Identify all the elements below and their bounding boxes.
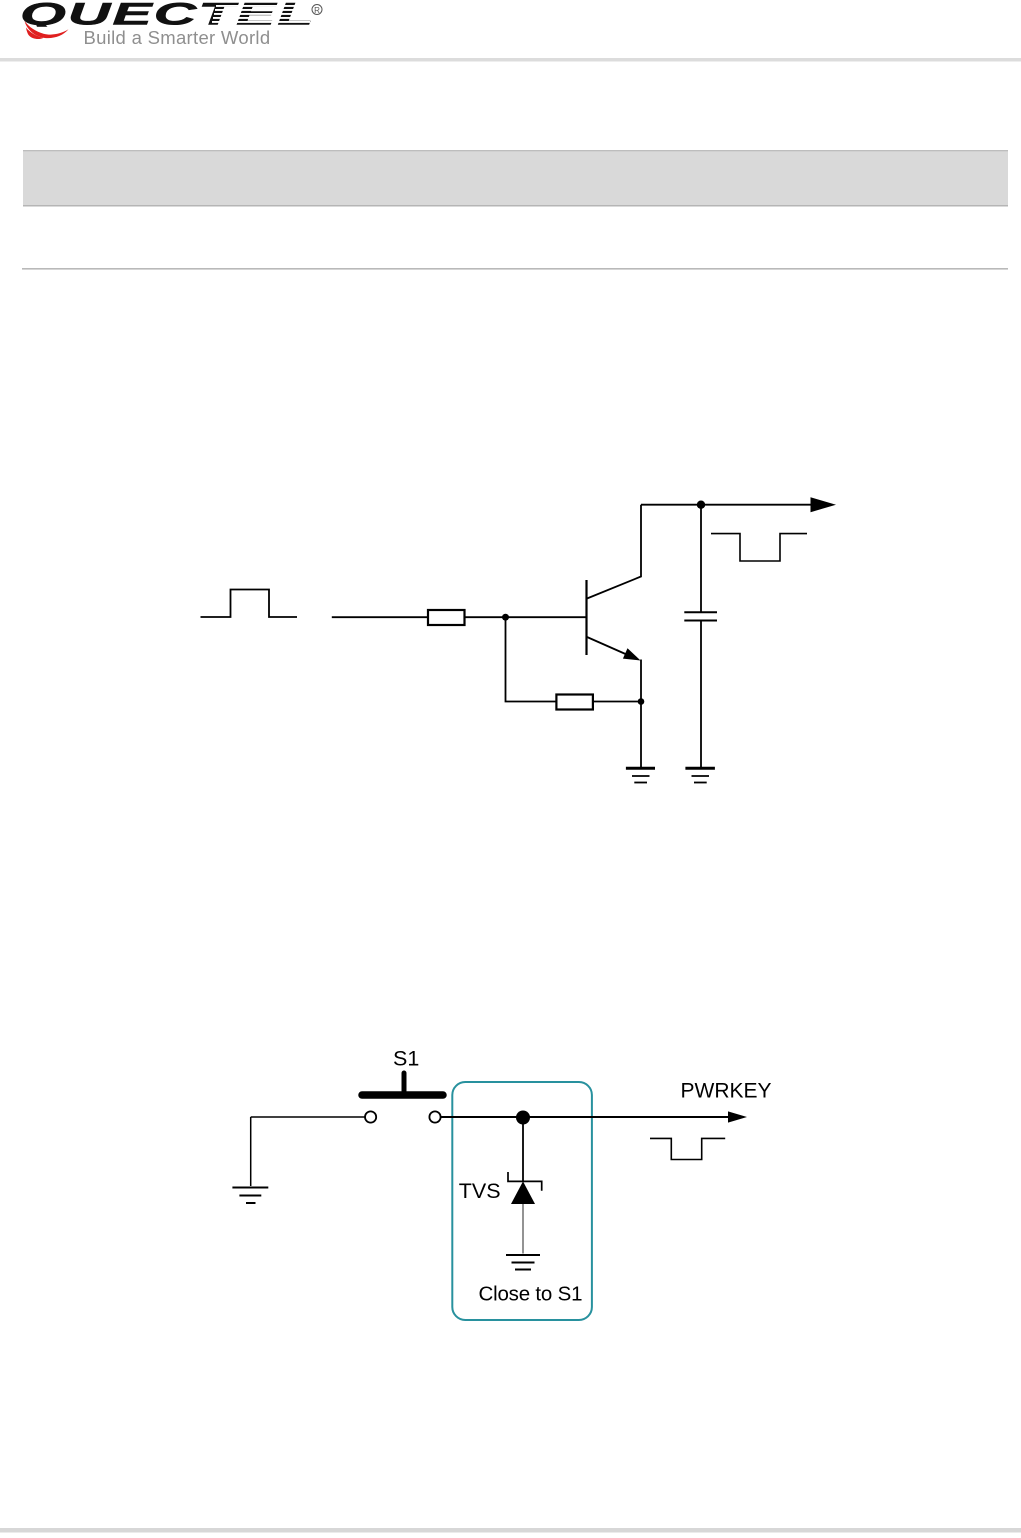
ground symbol (capacitor) [685,768,715,782]
TVS placement box (close to S1) [452,1082,592,1320]
svg-text:PWRKEY: PWRKEY [681,1080,772,1103]
ground symbol (emitter) [626,768,655,782]
footer divider line [0,1528,1021,1533]
wire: right contact to PWRKEY output [441,1116,729,1118]
wire: ground stub to left contact [251,1116,365,1118]
arrowhead: PWRKEY output of circuit 1 [811,497,837,512]
wire: rail node down to capacitor C1 [700,505,702,612]
sub-section divider line [22,268,1008,270]
logo registered trademark symbol [312,5,322,15]
TVS diode D1 (zener cathode bar with hooks) [508,1172,542,1191]
logo red swoosh [18,27,75,42]
output pulse waveform (circuit 1) [711,534,807,561]
node: emitter junction dot [638,698,645,705]
switch contact circle (right) [429,1111,440,1122]
wire: emitter node to ground [640,702,642,768]
wire: TVS diode to ground [522,1204,524,1254]
wire: resistor R2 to emitter node [593,701,641,703]
wire: capacitor C1 to ground [700,621,702,768]
ground symbol (switch side) [232,1188,268,1204]
section title grey bar [23,150,1008,207]
resistor R2 (base-emitter pull-down) [556,695,593,710]
transistor Q1 emitter lead with arrow [587,637,641,702]
svg-text:Close to S1: Close to S1 [479,1283,583,1306]
svg-text:Build a Smarter World: Build a Smarter World [84,27,271,48]
input pulse waveform [201,590,298,618]
header divider line [0,58,1021,62]
TVS diode D1 (anode triangle) [511,1181,535,1204]
wire: resistor R1 to base node [465,616,506,618]
wire: collector to output rail [641,504,812,506]
capacitor C1 plates [684,612,717,620]
wire: left vertical to ground [250,1117,252,1186]
wire: base node down to pull-down resistor R2 [506,617,557,701]
svg-text:TVS: TVS [459,1179,501,1203]
output pulse waveform (circuit 2) [650,1138,725,1159]
node: output rail junction dot [697,501,705,509]
switch contact circle (left) [365,1111,376,1122]
transistor Q1 collector lead [587,505,641,599]
transistor Q1 (NPN, base bar) [585,580,587,655]
svg-text:R: R [314,6,320,15]
Quectel logo wordmark [20,0,315,32]
wire: input to resistor R1 [332,616,428,618]
arrowhead: PWRKEY output of circuit 2 [728,1111,747,1122]
resistor R1 (series base resistor) [428,610,465,625]
wire: node to TVS diode [522,1118,524,1182]
ground symbol (TVS) [506,1255,540,1270]
push button S1 actuator [362,1073,443,1095]
wire: base node to transistor base [506,616,587,618]
node: TVS junction dot [516,1111,530,1125]
svg-text:S1: S1 [393,1047,419,1071]
node: base junction dot [502,614,509,621]
